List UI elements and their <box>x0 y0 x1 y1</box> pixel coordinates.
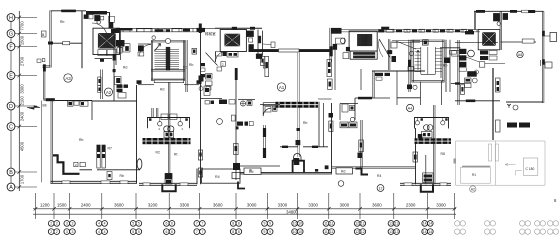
boxes (114.5-121,76.5-84.5) <box>115 77 122 85</box>
door arcs at unit2 entry <box>216 52 227 63</box>
annotation box with leader (12) right of E1 <box>116 46 123 48</box>
svg-text:8: 8 <box>232 230 234 234</box>
svg-text:6: 6 <box>165 230 167 234</box>
L-corner with door arc at x263-271 <box>263 103 271 117</box>
wall y98.5 (x200-222) <box>201 98 223 100</box>
svg-text:3600: 3600 <box>114 202 124 207</box>
junction box below double circle unit3 <box>422 132 433 138</box>
svg-text:4: 4 <box>104 230 106 234</box>
stack boxes inside bay <box>165 173 172 184</box>
panel box dark above elevator <box>94 15 100 21</box>
right wing left wall x475 <box>474 11 475 29</box>
wall x335 (y50-90) <box>334 50 336 90</box>
svg-text:2: 2 <box>50 230 52 234</box>
svg-text:14: 14 <box>428 230 432 234</box>
svg-text:9: 9 <box>269 230 271 234</box>
svg-text:三层: 三层 <box>104 34 110 39</box>
box x408-414 on wall <box>408 67 414 71</box>
dark label cluster (237-252,121-126) <box>237 122 243 126</box>
svg-text:5: 5 <box>132 222 134 226</box>
svg-text:R4: R4 <box>215 175 220 179</box>
svg-text:34800: 34800 <box>286 210 298 215</box>
bottom wall y184 (x140-197) <box>139 183 197 185</box>
balcony edge line x41.5 (y100-182) <box>41 101 43 183</box>
svg-text:4: 4 <box>98 230 100 234</box>
window gaps in bottom wall left <box>62 181 70 184</box>
svg-text:Rb: Rb <box>443 64 447 68</box>
wall x373 (y70-98) <box>373 71 374 98</box>
svg-text:5: 5 <box>138 230 140 234</box>
svg-text:7: 7 <box>201 230 203 234</box>
small circle fixture <box>409 51 413 55</box>
svg-text:12: 12 <box>355 222 359 226</box>
faint tick (452.6,158) <box>454 159 457 164</box>
fixture stacks x327-332 (y59-89) <box>327 60 332 77</box>
svg-text:A2: A2 <box>471 188 475 192</box>
dark segments on x330 wall <box>329 46 332 56</box>
svg-text:Rt: Rt <box>174 153 177 157</box>
door leaf and arc right of E3 <box>379 39 390 58</box>
heavy black band right part <box>299 49 331 52</box>
luminaire circle with cross (243,103) <box>240 101 245 106</box>
svg-text:B: B <box>42 33 45 37</box>
wall x236 (y68-180) <box>235 68 237 180</box>
grid bubble pair column 2 <box>48 221 59 235</box>
svg-text:12: 12 <box>355 230 359 234</box>
svg-text:12: 12 <box>361 222 365 226</box>
dark label pair (467-477) <box>467 71 477 77</box>
wall x92 (y100-120) <box>91 101 93 121</box>
svg-text:Rb: Rb <box>303 121 307 125</box>
boxes below elevator E1 <box>98 50 107 56</box>
box CB <box>450 50 457 54</box>
svg-text:A1: A1 <box>279 85 285 90</box>
small white boxes near (37,59) <box>37 59 41 62</box>
faint leader arrow at (503-515,165) <box>505 163 516 165</box>
wall x136.5 (y85-182) <box>136 85 138 183</box>
grid bubble pair column 11 <box>323 221 334 235</box>
bottom wall y167.5 (x332-415) <box>332 167 416 168</box>
white label box Rd right <box>336 168 353 174</box>
svg-text:2700: 2700 <box>20 56 25 66</box>
svg-text:Rb: Rb <box>189 63 193 67</box>
bottom dimension tick slashes <box>34 207 457 211</box>
radiator boxes on wall x200 lower <box>198 150 202 160</box>
grid bubble pair column 13 <box>388 221 399 235</box>
wall x389 (y39-70) <box>389 39 390 70</box>
stair S1 center rail dark <box>166 47 170 70</box>
svg-text:13: 13 <box>389 230 393 234</box>
window gaps in bottom wall right <box>404 183 412 186</box>
interior wall x82 <box>81 11 83 68</box>
wall x355 (y98-120) <box>354 98 356 120</box>
svg-text:3300: 3300 <box>308 202 318 207</box>
stair S3 door box <box>423 40 429 45</box>
svg-text:4: 4 <box>104 222 106 226</box>
top wall thick black segment (61-76) <box>61 10 76 13</box>
svg-text:2300: 2300 <box>406 202 416 207</box>
small boxes below entry <box>221 62 226 67</box>
second vertical x425.8 (y155-184) <box>425 155 427 184</box>
svg-text:3300: 3300 <box>180 202 190 207</box>
svg-text:5: 5 <box>132 230 134 234</box>
svg-text:机房: 机房 <box>229 41 235 46</box>
faint vertical x495 <box>495 141 497 185</box>
dark segments on top wall y30 <box>378 29 384 32</box>
small room boxes right of wall x200 (205-215,72-90) <box>206 74 213 80</box>
leader arrow into building at axis D <box>27 106 40 110</box>
walls right of stair x445-450 <box>445 40 447 92</box>
svg-text:2400: 2400 <box>81 202 91 207</box>
wall x340 (y103-120) <box>339 104 341 121</box>
svg-text:13: 13 <box>395 230 399 234</box>
dark label above wall (x381-389) <box>381 27 389 30</box>
balcony rail U shape unit3 (y117.5) <box>415 118 449 129</box>
axis letter column connector line <box>10 18 12 188</box>
svg-text:4: 4 <box>98 222 100 226</box>
svg-text:3: 3 <box>71 230 73 234</box>
stepped wall lower-left (thick L) <box>53 155 80 173</box>
marks below wall y98.5 <box>205 101 210 105</box>
rail end dots <box>149 118 152 121</box>
svg-text:10: 10 <box>293 230 297 234</box>
svg-text:R4: R4 <box>377 174 381 178</box>
faint horizontal y166 with darker segment <box>462 165 490 167</box>
svg-text:6: 6 <box>165 222 167 226</box>
dark labels right wing top <box>493 13 500 21</box>
wall x102 (y69-100) <box>101 70 103 100</box>
annotation box with leader E2 area <box>263 43 271 46</box>
door arc lobby to stair <box>140 45 152 57</box>
central wall x458.5 (y40-105) <box>458 40 459 105</box>
dark box left (198,75) <box>199 76 204 82</box>
radiator fixture (460,85-94) <box>460 85 464 95</box>
thick tick on wall x200 top <box>199 24 202 34</box>
svg-text:14: 14 <box>428 222 432 226</box>
elevator E2 car dark with X <box>224 34 240 47</box>
faint grid bubble pair 2 <box>485 221 496 235</box>
room label circle A2 <box>105 88 113 96</box>
rail dots unit3 <box>421 118 423 120</box>
left wall of stair zone x409.5 <box>409 40 410 92</box>
wall x331.5 (y103-173) <box>331 103 333 173</box>
fixture on spine x361 <box>359 140 364 152</box>
svg-text:2: 2 <box>50 222 52 226</box>
window band top (y28.3-31.9) with mullions <box>110 28 216 32</box>
top wall y30.8 (x332-480) with windows <box>332 30 480 32</box>
svg-text:机房: 机房 <box>362 41 368 46</box>
outer wall bottom-left (y182.3) <box>50 181 137 183</box>
box at right end of balcony <box>232 173 240 179</box>
wall x116 below elevator <box>115 49 117 66</box>
dark label cluster (507-530,122-128) <box>507 123 517 128</box>
outer wall step y66.5 (x42.4-50.5) <box>42 66 50 67</box>
grid bubble pair column 6 <box>164 221 175 235</box>
radiator stack on wall x262-268 <box>260 56 264 65</box>
svg-text:R8: R8 <box>441 152 445 156</box>
dark cluster on top band (465-474) <box>465 31 474 34</box>
axis bubble A <box>7 183 37 191</box>
wall x323.5 (y103-147) <box>323 103 325 147</box>
hatched window band unit1 bottom (dark) <box>143 138 191 144</box>
faint grid bubble pair 1 <box>455 221 466 235</box>
bottom dimension ticks <box>36 193 455 219</box>
svg-text:H: H <box>9 15 13 21</box>
svg-text:9: 9 <box>269 222 271 226</box>
dark blob on spine (295.5,140) <box>296 140 301 145</box>
spine wall x361.5 (y120-173) <box>361 120 362 173</box>
elevator E4 car dark with X <box>482 32 496 46</box>
window gap box in heavy band <box>279 49 300 52</box>
stair S2 compressed treads (dark bar) <box>350 51 377 59</box>
wall y83.5 (x450.9-464.5) <box>451 83 465 85</box>
room label circle A1 <box>277 83 285 91</box>
hatched window band unit3 (dark) <box>415 138 452 144</box>
annotation box + long leader to x505 <box>466 57 479 62</box>
fixtures between walls x329-333 <box>329 121 333 132</box>
svg-text:A3: A3 <box>65 76 71 81</box>
svg-text:Rd: Rd <box>341 170 345 174</box>
bay at unit2 bottom (stepped, thick) <box>293 161 304 173</box>
dark corner blobs at y80.5 <box>137 80 142 84</box>
svg-text:3: 3 <box>66 222 68 226</box>
window box outlines <box>136 29 152 32</box>
svg-text:3600: 3600 <box>372 202 382 207</box>
wall y146.8 (x280-328) <box>280 146 298 148</box>
right wing right wall x543.2 <box>543 11 544 103</box>
right wing inner wall x500.8 <box>500 11 501 50</box>
circle fixture with stem (201,88.5) <box>199 87 203 91</box>
circled unit label below building (341,183.5) <box>338 181 344 187</box>
wall y58.5 (x94.6-112) below E1 <box>95 58 112 60</box>
stair S1 outer walls <box>151 41 152 81</box>
axis grid line vertical (left dimension line) <box>18 11 20 191</box>
svg-text:A8: A8 <box>518 53 522 57</box>
right wing top wall y11.3 with thick segs <box>474 10 544 12</box>
grid bubble pair column 3 <box>64 221 75 235</box>
svg-text:1500: 1500 <box>20 35 25 45</box>
svg-text:R1: R1 <box>472 173 476 177</box>
svg-text:2: 2 <box>56 230 58 234</box>
svg-text:10: 10 <box>293 222 297 226</box>
wall x114 (y28.6-100.5) <box>113 29 115 101</box>
double circle fixture unit3 <box>424 125 430 131</box>
svg-text:C: C <box>9 124 13 130</box>
connector line y99 (x318-331) <box>318 98 332 100</box>
stair S1 treads <box>155 50 180 69</box>
axis bubble H <box>7 14 37 22</box>
wall x330.5 (y28-62) <box>330 28 331 62</box>
svg-text:12: 12 <box>379 187 383 191</box>
svg-text:3: 3 <box>71 222 73 226</box>
stair S3 arrow <box>417 50 420 70</box>
svg-text:8: 8 <box>232 222 234 226</box>
small circle symbol (153.7,37.6) <box>152 36 156 40</box>
box 8 below <box>263 63 267 68</box>
wall x420.5 (y81.5-105) <box>420 82 422 106</box>
right wing bottom wall y102 (x506-543) <box>506 101 543 103</box>
stem circles unit3 rail <box>415 121 419 125</box>
svg-text:2: 2 <box>222 62 224 66</box>
svg-text:13: 13 <box>389 222 393 226</box>
outer wall x51.7 (y99.8-182.3) <box>51 100 52 183</box>
svg-text:Rb: Rb <box>79 138 83 142</box>
svg-text:1700: 1700 <box>20 174 25 184</box>
svg-text:3200: 3200 <box>148 202 158 207</box>
window gap box on top wall <box>522 10 529 13</box>
elevator E3 car dark <box>357 34 372 46</box>
dark tick (235.5,126.4) <box>236 126 239 129</box>
svg-text:12: 12 <box>361 230 365 234</box>
svg-text:Rb: Rb <box>120 174 124 178</box>
wall y166 (x237-280) <box>237 165 280 167</box>
switch boxes near stepped wall <box>74 162 78 166</box>
grid bubble pair column 7 <box>194 221 205 235</box>
entry boxes row y51-58 <box>216 52 222 57</box>
box right of circle fixture <box>204 86 210 96</box>
interior wall y100.5 <box>55 100 92 102</box>
balcony room bottom (197-240) <box>202 169 241 183</box>
svg-text:3000: 3000 <box>340 202 350 207</box>
svg-text:梯前室: 梯前室 <box>205 31 216 36</box>
wall y98 (x355-420) with thick seg <box>355 97 390 99</box>
box outside right wall (550-556) <box>550 33 557 42</box>
radiator box below wall y168 <box>107 172 112 180</box>
junction box below double circle <box>164 132 174 138</box>
wall y101 right segment <box>92 100 137 102</box>
balcony rail U shape unit1 (y117.5) <box>148 118 190 129</box>
dark box pair right of x82 wall <box>84 15 89 19</box>
svg-text:11: 11 <box>330 222 334 226</box>
diagonal door leaf at unit2 entry <box>206 53 218 66</box>
dark segments on wall x114 <box>113 54 116 61</box>
svg-text:C 180: C 180 <box>526 167 535 171</box>
boxes on wall x389-397 <box>391 42 397 48</box>
stack boxes bottom of spine unit3 <box>423 173 433 182</box>
furniture marks (265-277,106-112) <box>265 107 271 113</box>
wall y99.5 (x238-255) <box>238 99 255 101</box>
wall x415.5 (y128-184) <box>415 128 417 184</box>
svg-text:4500: 4500 <box>20 141 25 151</box>
svg-text:A2: A2 <box>106 90 112 95</box>
thick segments on y28 wall <box>232 27 237 30</box>
svg-text:3600: 3600 <box>213 202 223 207</box>
wall y41.5 (x392-420) <box>392 41 420 43</box>
svg-text:机房: 机房 <box>104 43 110 48</box>
svg-text:6: 6 <box>171 230 173 234</box>
hatched window band unit2 (dark) <box>275 102 318 108</box>
small left margin box (41-45,31-37) <box>42 31 47 37</box>
dark blob (444.5,57.5) <box>445 58 451 64</box>
faint grid bubble pair 3 <box>520 221 531 235</box>
top cluster boxes unit2 core <box>331 28 341 34</box>
svg-text:3000: 3000 <box>247 202 257 207</box>
thick corner at balcony right (238-245,181-189) <box>238 182 245 189</box>
thin balcony lines left of hatch band <box>263 103 275 106</box>
top wall thick black segment (86-107) <box>86 11 107 15</box>
room label circle A3 <box>64 74 72 82</box>
elevator E1 car dark box with X <box>98 33 116 49</box>
wall y104.5 (x260-280) <box>260 104 280 106</box>
grid bubble pair column 5 <box>130 221 141 235</box>
bottom wall y184.3 (x400-451) <box>400 183 451 185</box>
elevator E3 shaft outline <box>349 31 377 51</box>
svg-text:A4: A4 <box>408 107 413 111</box>
bottom bay protruding (dark sides) <box>162 184 175 191</box>
window band thick end segment <box>197 28 206 32</box>
stair S3 outer walls <box>412 40 413 83</box>
top wall right bit to x109 <box>107 12 110 14</box>
faint circled label (472.8,189) <box>470 186 476 192</box>
svg-text:B: B <box>9 170 13 176</box>
svg-text:2: 2 <box>159 127 161 131</box>
slim fixture right of stair <box>192 48 197 54</box>
door arc at elevator lobby <box>92 23 108 39</box>
small box at (545-552,62-68) <box>545 62 552 68</box>
radiator boxes on wall x102 <box>98 77 101 85</box>
stepped thick corner at x355-368 <box>356 169 369 175</box>
dark blobs on x264 window <box>263 128 266 137</box>
dark label cluster (116.5-128,84.5-92) <box>117 85 123 88</box>
svg-text:11: 11 <box>324 222 328 226</box>
wall x361 (y69-90) <box>360 69 362 90</box>
dark dots above bottom wall <box>315 169 318 172</box>
table fixtures (342-356,104-112) <box>342 104 348 112</box>
room top walls y84.7 below stair <box>138 84 154 86</box>
faint box with text C180 <box>523 158 538 175</box>
wall x441.5 (y80-105) <box>441 81 443 105</box>
svg-text:10: 10 <box>298 222 302 226</box>
wall x493 (y68-140) <box>492 68 493 140</box>
dark box + circle (socket) mid unit2r <box>407 85 412 90</box>
wall y169.8 (x79.5-140) <box>80 169 93 171</box>
wall right of stair x186.5 <box>186 40 187 92</box>
svg-text:Rd: Rd <box>123 66 127 70</box>
dark label stack right of stair <box>459 49 466 54</box>
panel dark box (116,40) <box>116 40 125 47</box>
circled label at (219.5,121.5) <box>217 119 223 125</box>
svg-text:8: 8 <box>238 230 240 234</box>
wall x319 (y101-147) <box>318 102 320 147</box>
spine wall unit3 x434 (y105-184) <box>434 105 435 184</box>
elevator E1 shaft outline <box>93 28 120 54</box>
faint slim fixtures (488,144)-(499,161) <box>489 144 492 161</box>
svg-text:1500: 1500 <box>57 202 67 207</box>
svg-text:3300: 3300 <box>436 202 446 207</box>
window band dark segments <box>116 28 133 30</box>
small room left of stair with panel <box>138 43 151 45</box>
svg-text:2: 2 <box>182 127 184 131</box>
svg-text:9: 9 <box>264 222 266 226</box>
grid bubble pair column 8 <box>230 221 241 235</box>
interior wall y43.5 with window <box>51 42 63 44</box>
bath fixtures lower-left unit1 <box>67 101 73 106</box>
svg-text:7: 7 <box>201 222 203 226</box>
right-edge window verticals x264 (y125-158) <box>263 125 265 158</box>
svg-text:6: 6 <box>171 222 173 226</box>
svg-text:Rd: Rd <box>183 66 187 70</box>
grid bubble pair column 12 <box>354 221 365 235</box>
double circle fixture at spine <box>164 126 170 132</box>
wall x258 and boxes <box>257 30 259 56</box>
svg-text:1200: 1200 <box>40 202 50 207</box>
axis bubble E <box>7 72 37 80</box>
svg-text:R7: R7 <box>108 147 112 151</box>
dark cluster x418 (y134-140) <box>418 134 423 140</box>
white label box Rd left <box>244 168 261 174</box>
bottom dimension line upper <box>33 208 456 210</box>
panel boxes right of E2 <box>246 31 253 37</box>
